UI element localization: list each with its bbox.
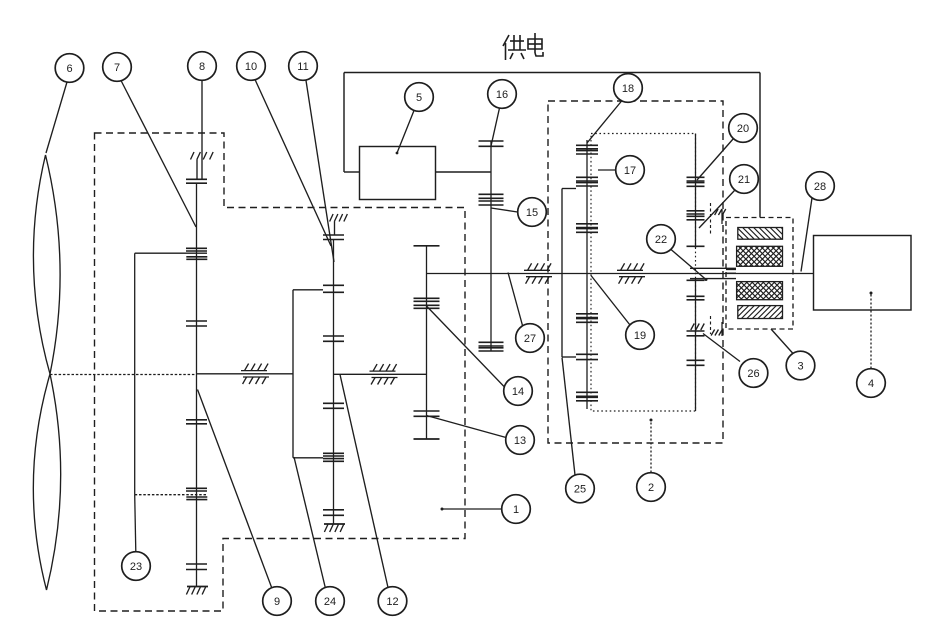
svg-text:7: 7 — [114, 62, 120, 74]
svg-text:14: 14 — [512, 386, 524, 398]
svg-text:25: 25 — [574, 484, 586, 496]
svg-text:24: 24 — [324, 596, 336, 608]
svg-text:28: 28 — [814, 181, 826, 193]
svg-text:3: 3 — [797, 361, 803, 373]
svg-text:26: 26 — [747, 368, 759, 380]
svg-text:9: 9 — [274, 596, 280, 608]
svg-text:27: 27 — [524, 333, 536, 345]
svg-text:10: 10 — [245, 61, 257, 73]
svg-text:21: 21 — [738, 174, 750, 186]
svg-text:18: 18 — [622, 83, 634, 95]
svg-text:22: 22 — [655, 234, 667, 246]
svg-text:19: 19 — [634, 330, 646, 342]
svg-text:4: 4 — [868, 378, 874, 390]
svg-text:6: 6 — [66, 63, 72, 75]
svg-text:5: 5 — [416, 92, 422, 104]
svg-text:12: 12 — [386, 596, 398, 608]
svg-text:1: 1 — [513, 504, 519, 516]
svg-text:8: 8 — [199, 61, 205, 73]
svg-text:17: 17 — [624, 165, 636, 177]
svg-text:23: 23 — [130, 561, 142, 573]
svg-text:20: 20 — [737, 123, 749, 135]
svg-text:16: 16 — [496, 89, 508, 101]
svg-text:2: 2 — [648, 482, 654, 494]
svg-text:13: 13 — [514, 435, 526, 447]
svg-text:11: 11 — [297, 61, 308, 73]
svg-text:15: 15 — [526, 207, 538, 219]
